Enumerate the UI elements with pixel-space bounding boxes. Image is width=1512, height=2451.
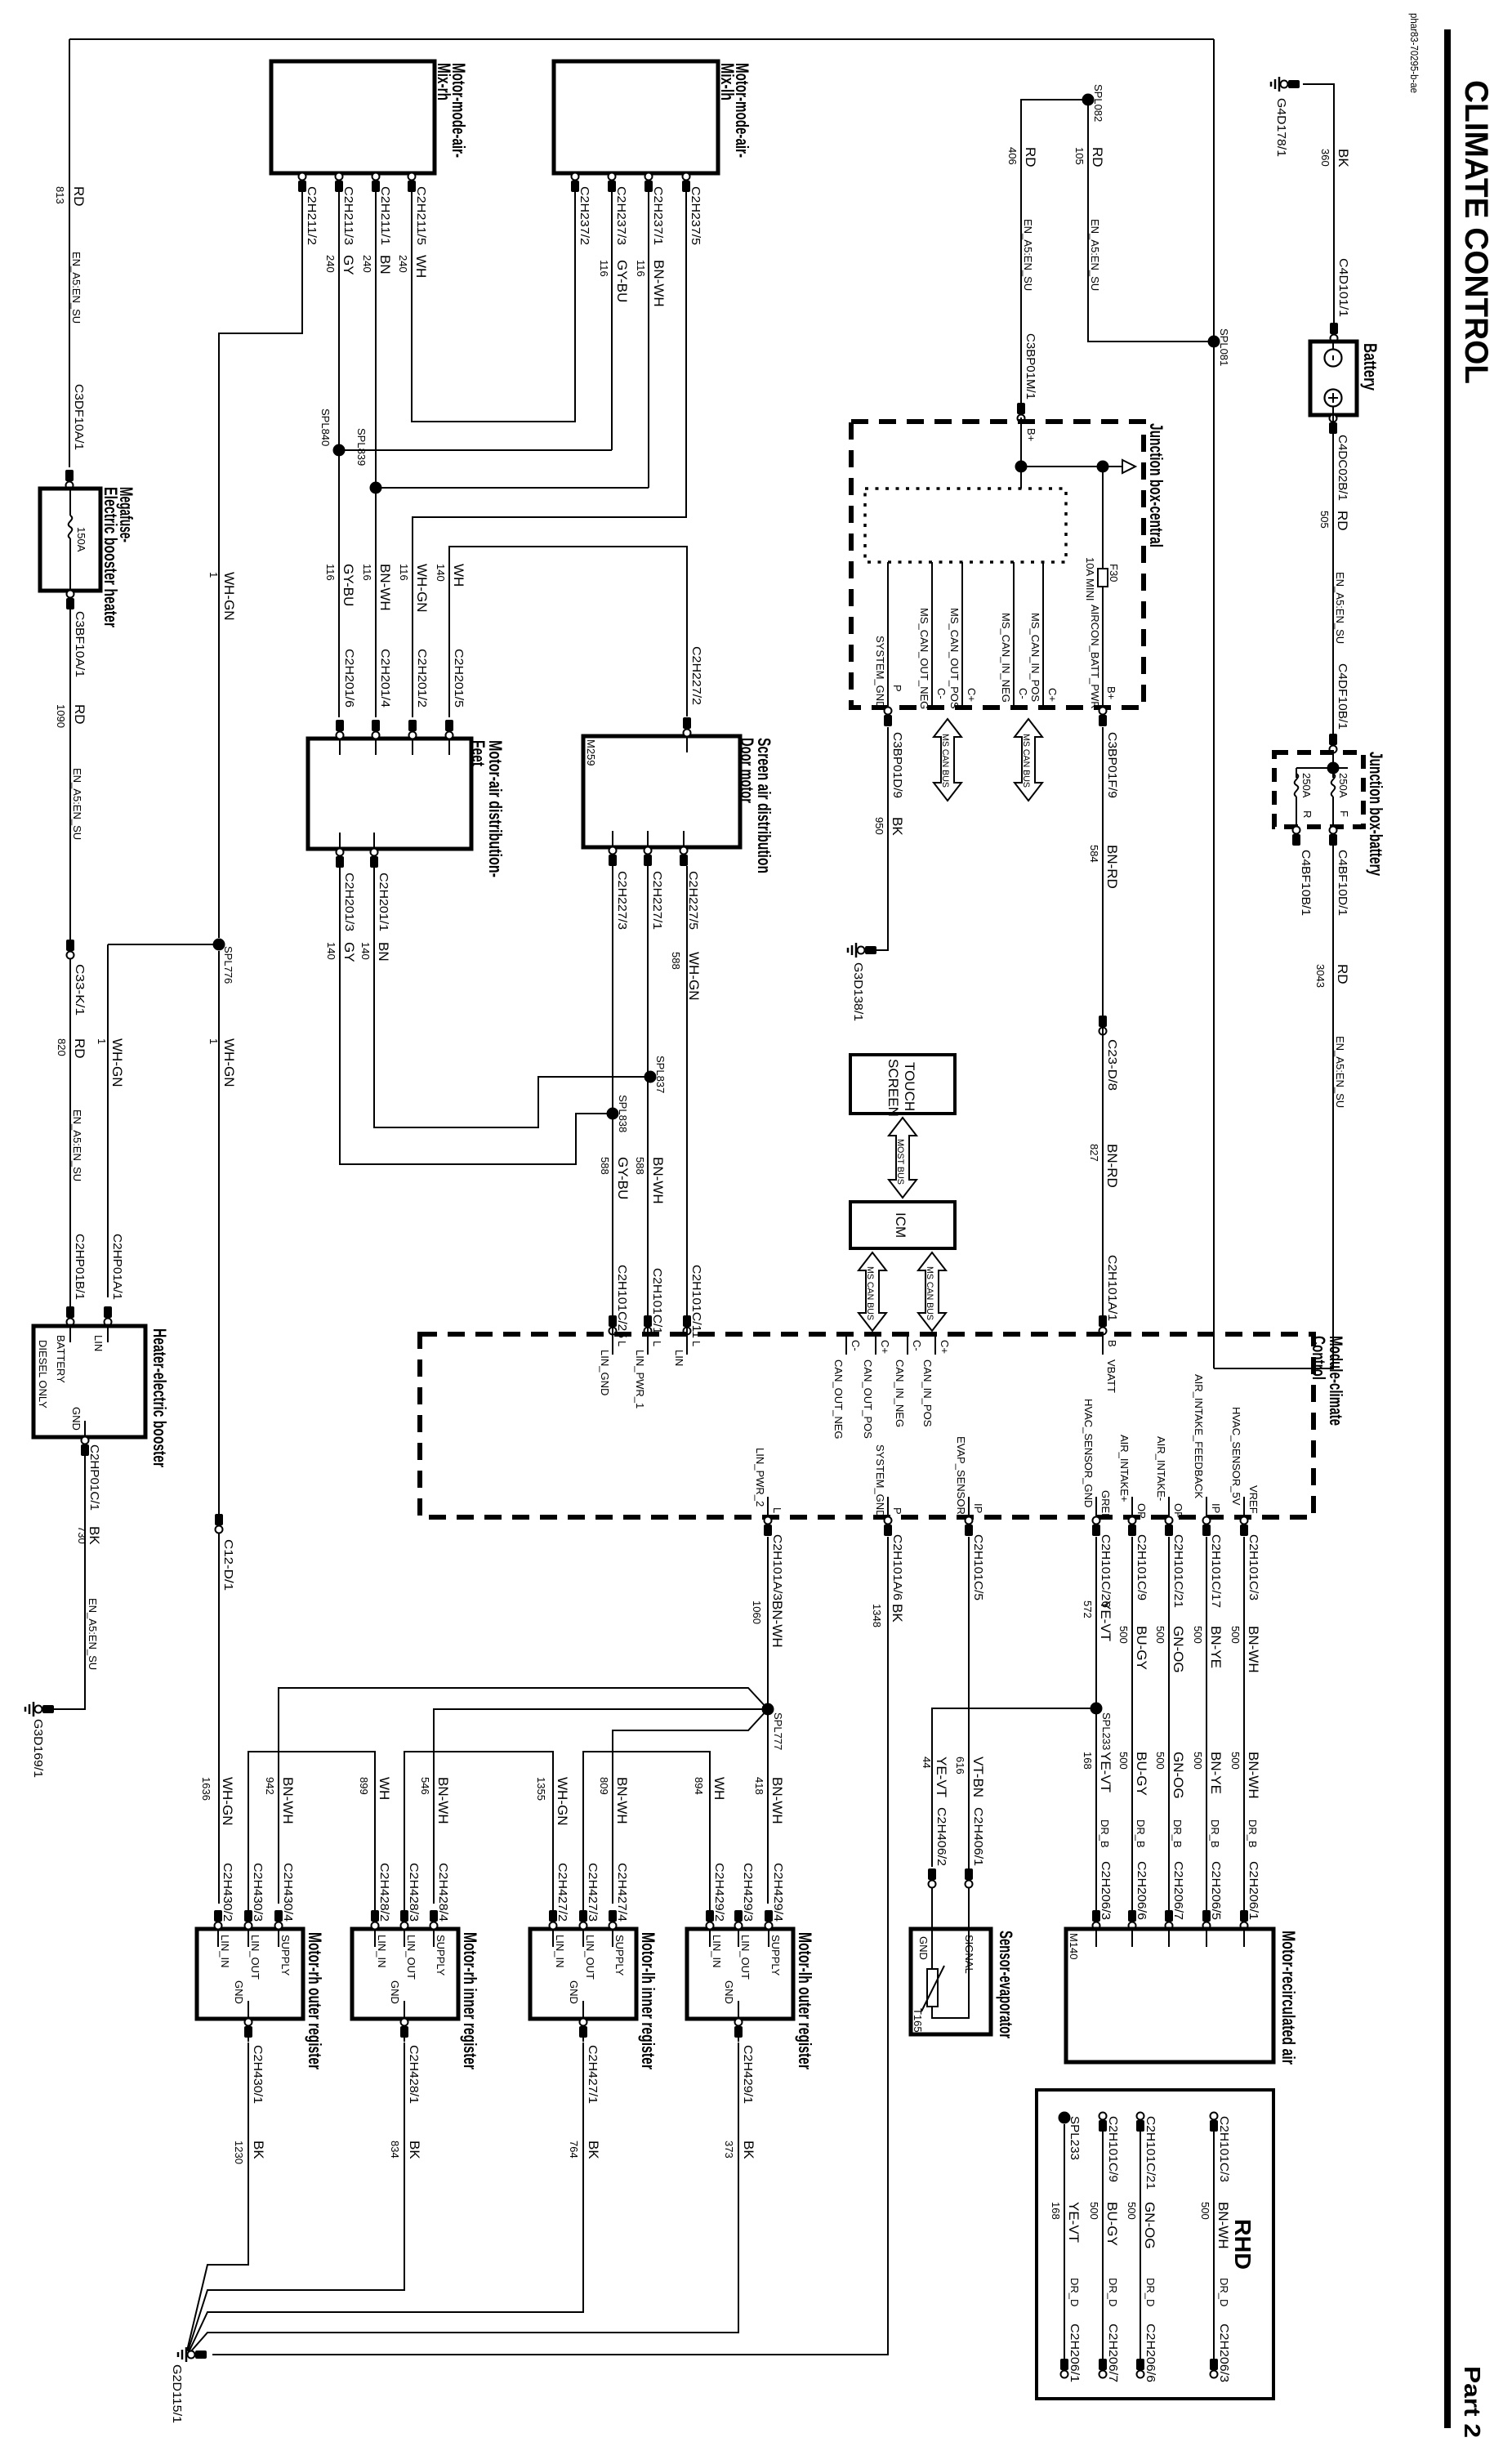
wire C2H237/5 to WH-GN 116 drop	[413, 190, 686, 717]
pin C2H227/5 bottom	[683, 831, 685, 866]
Motor-recirculated air box	[1066, 1929, 1273, 2062]
svg-text:Motor-rh outer register: Motor-rh outer register	[305, 1932, 325, 2069]
svg-text:WH-GN: WH-GN	[221, 572, 237, 620]
svg-text:C2H101C/21: C2H101C/21	[1144, 2116, 1157, 2190]
pin C2H201/2	[408, 720, 417, 731]
wire battery bus inside	[1332, 752, 1334, 768]
pin LIN_OUT C2H428/3	[404, 1914, 405, 1947]
svg-text:M140: M140	[1068, 1933, 1080, 1960]
svg-text:CLIMATE CONTROL: CLIMATE CONTROL	[1458, 80, 1494, 384]
svg-text:LIN_PWR_1: LIN_PWR_1	[634, 1350, 646, 1409]
svg-text:P: P	[891, 1507, 903, 1515]
svg-text:C+: C+	[879, 1340, 891, 1354]
svg-text:DR_B: DR_B	[1209, 1819, 1221, 1848]
svg-text:C3BF10A/1: C3BF10A/1	[73, 611, 87, 677]
svg-text:500: 500	[1154, 1752, 1166, 1770]
pin C2H227/3 bottom	[612, 831, 613, 866]
svg-text:DIESEL ONLY: DIESEL ONLY	[37, 1340, 49, 1409]
pin LIN_PWR_1	[647, 1334, 649, 1355]
RHD box	[1037, 2090, 1273, 2399]
svg-text:C2H206/1: C2H206/1	[1247, 1861, 1260, 1920]
ground G3D138/1	[856, 949, 864, 951]
svg-text:Motor-lh outer register: Motor-lh outer register	[795, 1932, 815, 2069]
connector C2H101A/1	[1099, 1315, 1107, 1327]
svg-text:C3BP01D/9: C3BP01D/9	[890, 732, 904, 798]
svg-text:M259: M259	[585, 739, 597, 766]
Motor-lh inner register box	[530, 1929, 636, 2019]
pin CAN_IN_POS	[934, 1334, 936, 1355]
svg-text:500: 500	[1192, 1626, 1204, 1644]
svg-text:SUPPLY: SUPPLY	[279, 1935, 292, 1976]
pin LIN_IN C2H430/2	[217, 1914, 219, 1947]
pin GND C2H429/1	[738, 2001, 739, 2019]
svg-text:RD: RD	[1090, 147, 1105, 167]
svg-text:BN-YE: BN-YE	[1208, 1752, 1224, 1794]
svg-text:500: 500	[1199, 2202, 1211, 2220]
svg-text:C2H428/3: C2H428/3	[407, 1863, 421, 1922]
svg-text:YE-VT: YE-VT	[934, 1757, 949, 1797]
label LIN pin	[107, 1326, 109, 1342]
svg-text:Heater-electric booster: Heater-electric booster	[149, 1328, 170, 1467]
svg-text:EN_A5:EN_SU: EN_A5:EN_SU	[71, 768, 83, 840]
svg-text:Sensor-evaporator: Sensor-evaporator	[996, 1931, 1016, 2038]
MS CAN BUS arrow 3	[859, 1252, 886, 1331]
svg-text:GND: GND	[568, 1980, 580, 2004]
svg-text:588: 588	[634, 1157, 646, 1175]
svg-text:C2HP01C/1: C2HP01C/1	[87, 1444, 101, 1511]
splice SPL777	[762, 1703, 774, 1716]
wire SPL082 down to SPL081 level	[1088, 100, 1214, 342]
pin C2H201/6	[336, 720, 344, 731]
svg-text:BN-WH: BN-WH	[280, 1777, 296, 1824]
connector C2HP01A/1	[104, 1306, 112, 1318]
pin CAN_IN_NEG	[907, 1334, 908, 1355]
svg-text:764: 764	[568, 2141, 580, 2159]
pin LIN_IN C2H429/2	[709, 1914, 711, 1947]
svg-text:C2H211/1: C2H211/1	[378, 186, 392, 245]
svg-text:DR_D: DR_D	[1218, 2278, 1230, 2306]
pin SUPPLY C2H427/4	[612, 1914, 613, 1947]
svg-text:Motor-rh inner register: Motor-rh inner register	[460, 1932, 480, 2069]
svg-text:F30: F30	[1108, 564, 1120, 582]
pin AIR_INTAKE-	[1168, 1497, 1170, 1517]
connector C4BF10D/1	[1329, 834, 1337, 846]
svg-text:C2H101C/25: C2H101C/25	[615, 1265, 629, 1338]
svg-text:YE-VT: YE-VT	[1098, 1752, 1113, 1792]
svg-text:950: 950	[873, 817, 885, 835]
svg-text:RD: RD	[1335, 511, 1350, 531]
svg-text:F: F	[1338, 810, 1350, 817]
splice SPL776 branch horizontal	[108, 944, 219, 945]
wire LIN chain rh outer to rh inner	[248, 1752, 375, 1911]
svg-text:C2H206/1: C2H206/1	[1068, 2324, 1082, 2382]
svg-text:ICM: ICM	[893, 1212, 908, 1238]
connector C2H101C/1	[644, 1315, 652, 1327]
svg-text:RD: RD	[1023, 147, 1038, 167]
svg-text:168: 168	[1050, 2202, 1062, 2220]
connector C2H101C/25	[609, 1315, 617, 1327]
ground G4D178/1	[1279, 83, 1287, 85]
svg-text:CAN_OUT_NEG: CAN_OUT_NEG	[832, 1359, 845, 1440]
svg-text:C2H201/3: C2H201/3	[342, 873, 356, 931]
svg-text:SUPPLY: SUPPLY	[769, 1935, 782, 1976]
svg-text:B+: B+	[1025, 428, 1037, 441]
svg-text:C2H201/4: C2H201/4	[378, 649, 392, 708]
svg-text:WH: WH	[413, 255, 429, 278]
svg-text:HVAC_SENSOR_GND: HVAC_SENSOR_GND	[1082, 1399, 1095, 1507]
pin GND C2H427/1	[582, 2001, 584, 2019]
svg-text:GY-BU: GY-BU	[614, 260, 630, 302]
svg-text:500: 500	[1117, 1752, 1130, 1770]
svg-text:MS_CAN_IN_NEG: MS_CAN_IN_NEG	[1000, 613, 1012, 703]
svg-text:730: 730	[76, 1526, 88, 1544]
wire RD 1090	[69, 605, 71, 1316]
svg-text:Motor-lh inner register: Motor-lh inner register	[638, 1932, 658, 2069]
svg-text:C2H430/4: C2H430/4	[281, 1863, 295, 1922]
svg-text:BN-WH: BN-WH	[1246, 1752, 1261, 1799]
svg-text:C33-K/1: C33-K/1	[73, 964, 87, 1016]
svg-text:C2H227/1: C2H227/1	[650, 871, 664, 930]
svg-text:240: 240	[324, 255, 337, 273]
svg-text:C2H201/2: C2H201/2	[415, 649, 429, 708]
connector C2HP01C/1	[81, 1444, 89, 1456]
node junction dot	[1327, 762, 1340, 775]
pin C2H211/2	[301, 173, 303, 200]
pin EVAP_SENSOR	[968, 1497, 970, 1517]
svg-text:Part 2: Part 2	[1460, 2366, 1485, 2438]
svg-text:C2H237/1: C2H237/1	[651, 186, 665, 245]
svg-text:B: B	[1106, 1340, 1118, 1347]
connector C2H101C/11	[683, 1315, 691, 1327]
svg-text:GND: GND	[723, 1980, 735, 2004]
svg-text:R: R	[1301, 810, 1314, 818]
svg-text:SPL839: SPL839	[355, 428, 368, 466]
svg-text:BN: BN	[377, 255, 393, 275]
svg-text:250A: 250A	[1300, 773, 1313, 798]
svg-text:EN_A5:EN_SU: EN_A5:EN_SU	[87, 1598, 99, 1670]
svg-text:BK: BK	[586, 2141, 601, 2159]
connector C2H406/2	[928, 1868, 936, 1880]
svg-text:OP: OP	[1172, 1503, 1184, 1519]
Screen air distribution Door motor box	[583, 736, 740, 847]
svg-text:GND: GND	[389, 1980, 401, 2004]
svg-text:MOST BUS: MOST BUS	[895, 1139, 905, 1185]
wire BK 950 to ground G3D138/1	[864, 727, 888, 950]
connector C3BP01M/1	[1017, 403, 1025, 414]
Megafuse-Electric booster heater box	[40, 489, 100, 591]
pin LIN_OUT C2H429/3	[738, 1914, 739, 1947]
pin SYSTEM_GND (module)	[887, 1497, 889, 1517]
connector C2H406/1	[965, 1868, 973, 1880]
svg-text:C2H429/3: C2H429/3	[741, 1863, 755, 1922]
wire from SPL082 to C3BP01M/1	[1021, 100, 1088, 422]
svg-text:C2H237/5: C2H237/5	[689, 186, 702, 245]
svg-text:GREF: GREF	[1099, 1490, 1112, 1520]
svg-text:EN_A5:EN_SU: EN_A5:EN_SU	[1022, 219, 1034, 291]
pin CAN_OUT_NEG	[845, 1334, 847, 1355]
wire BN-RD from C3BP01F/9 to module VBATT	[1102, 727, 1104, 1017]
wire SPL777 branch to rh outer SUPPLY	[279, 1688, 768, 1904]
svg-text:G3D169/1: G3D169/1	[31, 1719, 45, 1778]
svg-text:C2H428/1: C2H428/1	[407, 2045, 421, 2104]
wire BN-WH with splice SPL839	[375, 190, 377, 717]
fuse 150A	[69, 489, 71, 516]
svg-text:BU-GY: BU-GY	[1104, 2202, 1120, 2246]
svg-text:827: 827	[1088, 1144, 1100, 1162]
svg-text:C4DF10B/1: C4DF10B/1	[1336, 663, 1349, 730]
RHD wire YE-VT SPL233 to C2H206/1	[1064, 2124, 1065, 2361]
svg-text:240: 240	[397, 255, 409, 273]
svg-text:C2H101C/9: C2H101C/9	[1106, 2116, 1120, 2182]
wire GND lh outer to ground	[190, 2042, 738, 2353]
pin C2H211/5	[411, 173, 413, 200]
svg-text:116: 116	[324, 564, 337, 581]
Junction box-battery dashed box	[1274, 752, 1363, 827]
svg-text:Mix-rh: Mix-rh	[434, 63, 454, 100]
svg-text:CAN_OUT_POS: CAN_OUT_POS	[862, 1359, 874, 1439]
svg-text:500: 500	[1117, 1626, 1130, 1644]
ground G2D115/1	[186, 2354, 194, 2355]
svg-text:RD: RD	[72, 1038, 87, 1059]
svg-text:116: 116	[398, 564, 410, 581]
svg-text:EN_A5:EN_SU: EN_A5:EN_SU	[1334, 572, 1346, 644]
svg-text:360: 360	[1319, 149, 1331, 167]
svg-text:BN-WH: BN-WH	[769, 1601, 785, 1648]
svg-text:C2H211/3: C2H211/3	[341, 186, 355, 245]
wire GN-OG 500	[1168, 1537, 1170, 1912]
wire BN-RD 827	[1102, 1017, 1104, 1334]
RHD wire BU-GY C2H101C/9 to C2H206/7	[1102, 2124, 1104, 2361]
splice SPL082	[1082, 94, 1095, 106]
inner dotted box	[865, 489, 1066, 562]
svg-text:1355: 1355	[535, 1777, 547, 1801]
svg-text:C2H430/3: C2H430/3	[251, 1863, 265, 1922]
svg-text:1636: 1636	[200, 1777, 212, 1801]
svg-text:C2H201/6: C2H201/6	[342, 649, 356, 708]
node fuse tap dot	[1097, 461, 1109, 473]
svg-text:C2H206/6: C2H206/6	[1144, 2324, 1157, 2382]
svg-text:834: 834	[389, 2141, 401, 2159]
svg-text:MS CAN BUS: MS CAN BUS	[1021, 734, 1031, 788]
svg-text:C2H428/4: C2H428/4	[436, 1863, 450, 1922]
svg-text:SUPPLY: SUPPLY	[435, 1935, 447, 1976]
pin CAN_OUT_POS	[875, 1334, 876, 1355]
pin LIN_OUT C2H430/3	[248, 1914, 249, 1947]
svg-text:SPL837: SPL837	[654, 1056, 667, 1093]
svg-text:LIN_IN: LIN_IN	[219, 1935, 231, 1967]
connector C2H101A/6	[884, 1525, 892, 1536]
svg-text:BN-WH: BN-WH	[651, 260, 667, 307]
svg-text:LIN_OUT: LIN_OUT	[405, 1935, 417, 1980]
svg-text:YE-VT: YE-VT	[1098, 1601, 1113, 1641]
svg-text:L: L	[690, 1341, 702, 1346]
svg-text:899: 899	[358, 1777, 370, 1795]
svg-text:C4D101/1: C4D101/1	[1336, 258, 1350, 317]
svg-text:140: 140	[359, 942, 372, 960]
wire LIN chain lh inner to lh outer	[583, 1752, 710, 1911]
connector C4D101/1	[1330, 323, 1338, 334]
wire BK 730 to ground	[47, 1455, 85, 1709]
svg-text:820: 820	[56, 1038, 68, 1056]
svg-text:809: 809	[598, 1777, 610, 1795]
svg-text:Junction box-central: Junction box-central	[1146, 423, 1166, 547]
svg-text:BN-RD: BN-RD	[1104, 845, 1120, 889]
svg-text:SPL081: SPL081	[1218, 328, 1230, 366]
svg-text:BATTERY: BATTERY	[55, 1335, 67, 1383]
svg-text:942: 942	[264, 1777, 276, 1795]
wire BN-WH 500	[1243, 1537, 1245, 1912]
connector C4DF10B/1	[1329, 734, 1337, 745]
Heater-electric booster box	[33, 1326, 145, 1437]
svg-text:SYSTEM_GND: SYSTEM_GND	[874, 636, 886, 709]
svg-text:C2H427/4: C2H427/4	[615, 1863, 629, 1922]
svg-text:DR_B: DR_B	[1247, 1819, 1259, 1848]
svg-text:GND: GND	[917, 1936, 930, 1960]
svg-text:C-: C-	[911, 1340, 923, 1351]
svg-text:MS CAN BUS: MS CAN BUS	[940, 734, 950, 788]
Module-climate Control dashed box	[420, 1334, 1314, 1517]
svg-text:EVAP_SENSOR: EVAP_SENSOR	[955, 1436, 967, 1515]
wire LIN chain rh inner to lh inner	[404, 1752, 553, 1911]
svg-text:C3BP01F/9: C3BP01F/9	[1105, 732, 1119, 798]
svg-text:105: 105	[1073, 147, 1086, 165]
svg-text:150A: 150A	[75, 527, 87, 552]
svg-text:C2H237/2: C2H237/2	[578, 186, 591, 245]
svg-text:250A: 250A	[1337, 773, 1349, 798]
svg-text:EN_A5:EN_SU: EN_A5:EN_SU	[70, 252, 83, 324]
wire sensor SIGNAL drop	[968, 1887, 970, 1929]
svg-text:BK: BK	[1336, 149, 1351, 167]
wire RD 3043 loop	[1214, 843, 1333, 1368]
svg-text:BN-WH: BN-WH	[1246, 1626, 1261, 1673]
svg-text:406: 406	[1006, 147, 1019, 165]
svg-text:Door motor: Door motor	[737, 738, 757, 803]
svg-text:YE-VT: YE-VT	[1066, 2202, 1082, 2243]
wire Screen C2H227/2 riser to WH 140 drop	[449, 547, 687, 717]
svg-text:SPL233: SPL233	[1068, 2116, 1082, 2160]
svg-text:SPL082: SPL082	[1092, 84, 1104, 122]
svg-text:588: 588	[670, 952, 682, 970]
MS CAN BUS arrow 4	[918, 1252, 946, 1331]
svg-text:TOUCH: TOUCH	[902, 1062, 917, 1111]
RHD wire GN-OG C2H101C/21 to C2H206/6	[1140, 2124, 1141, 2361]
wire SPL777 down to lh outer SUPPLY	[767, 1709, 769, 1904]
pin LIN_OUT C2H427/3	[582, 1914, 584, 1947]
wire SPL777 branch to lh inner SUPPLY	[613, 1709, 768, 1904]
svg-text:BK: BK	[890, 1604, 905, 1623]
svg-text:SPL776: SPL776	[222, 946, 234, 984]
svg-text:C2H429/4: C2H429/4	[771, 1863, 785, 1922]
svg-text:500: 500	[1154, 1626, 1166, 1644]
svg-text:P: P	[891, 685, 903, 692]
svg-text:VBATT: VBATT	[1105, 1359, 1117, 1393]
pin LIN_GND	[612, 1334, 613, 1355]
svg-text:EN_A5:EN_SU: EN_A5:EN_SU	[71, 1109, 83, 1181]
svg-text:MS_CAN_IN_POS: MS_CAN_IN_POS	[1029, 613, 1041, 702]
svg-text:SYSTEM_GND: SYSTEM_GND	[874, 1444, 886, 1518]
svg-text:572: 572	[1082, 1601, 1094, 1618]
svg-text:1: 1	[96, 1038, 108, 1044]
wire long RD vertical right	[1213, 39, 1215, 1368]
connector C4BF10B/1	[1292, 834, 1300, 846]
svg-text:C2H101C/1: C2H101C/1	[650, 1268, 664, 1334]
pin GND C2H430/1	[248, 2001, 249, 2019]
svg-text:116: 116	[598, 260, 610, 277]
wire SPL777 branch to rh inner SUPPLY	[434, 1709, 768, 1904]
svg-text:Control: Control	[1309, 1336, 1329, 1380]
MS CAN BUS arrow 1	[934, 719, 961, 801]
splice SPL837	[644, 1071, 657, 1083]
svg-text:C2HP01A/1: C2HP01A/1	[110, 1234, 124, 1300]
svg-text:168: 168	[1082, 1752, 1094, 1770]
svg-text:LIN_OUT: LIN_OUT	[739, 1935, 752, 1980]
svg-text:C2H206/5: C2H206/5	[1209, 1861, 1223, 1920]
svg-text:L: L	[771, 1507, 783, 1513]
svg-text:584: 584	[1088, 845, 1100, 863]
wire WH-GN to heater LIN	[107, 944, 109, 1297]
recirc pin stubs	[1095, 1929, 1097, 1947]
svg-text:894: 894	[693, 1777, 705, 1795]
svg-text:IP: IP	[1210, 1503, 1222, 1513]
connector C2H101C/21	[1165, 1525, 1173, 1536]
svg-text:C4BF10D/1: C4BF10D/1	[1336, 850, 1349, 916]
connector C2H101C/5	[965, 1525, 973, 1536]
svg-text:C2H101C/5: C2H101C/5	[971, 1534, 985, 1601]
Motor-rh inner register box	[352, 1929, 458, 2019]
pin C2H227/2 top	[683, 717, 691, 729]
svg-text:C2H429/2: C2H429/2	[712, 1863, 726, 1922]
wire stubs into module top LIN	[612, 1311, 613, 1334]
pin stub MS_CAN_OUT_POS	[961, 562, 963, 708]
pin SUPPLY C2H430/4	[278, 1914, 279, 1947]
wire BN-WH 588 vertical	[647, 866, 649, 1311]
svg-text:140: 140	[325, 942, 337, 960]
svg-text:DR_D: DR_D	[1068, 2278, 1081, 2306]
svg-text:AIR_INTAKE_FEEDBACK: AIR_INTAKE_FEEDBACK	[1193, 1374, 1205, 1499]
svg-text:Battery: Battery	[1360, 343, 1380, 391]
Motor-mode-air-Mix-lh box	[554, 61, 718, 173]
wire C2H211/2 to WH-GN bus	[219, 190, 302, 938]
svg-text:C2H427/1: C2H427/1	[586, 2045, 600, 2104]
connector C2HP01B/1	[66, 1306, 74, 1318]
connector C12-D/1 inline	[215, 1514, 223, 1525]
svg-text:WH-GN: WH-GN	[686, 952, 702, 1000]
svg-text:44: 44	[921, 1757, 933, 1768]
svg-text:LIN_GND: LIN_GND	[599, 1350, 611, 1395]
svg-text:500: 500	[1229, 1626, 1242, 1644]
svg-text:Mix-lh: Mix-lh	[717, 63, 738, 100]
wire BU-GY 500	[1131, 1537, 1133, 1912]
svg-text:LIN_OUT: LIN_OUT	[249, 1935, 261, 1980]
Battery box	[1310, 342, 1357, 415]
pin AIR_INTAKE+	[1131, 1497, 1133, 1517]
TOUCH SCREEN box	[850, 1055, 955, 1114]
svg-text:1: 1	[207, 572, 220, 578]
wire B+ bus to arrow	[1021, 466, 1122, 467]
svg-text:500: 500	[1088, 2202, 1100, 2220]
connector C33-K/1 inline	[66, 940, 74, 951]
svg-text:C2H101C/17: C2H101C/17	[1209, 1534, 1223, 1608]
pin C2H201/3 bottom	[339, 833, 341, 868]
svg-text:GY: GY	[341, 255, 356, 275]
svg-text:BN-WH: BN-WH	[1215, 2202, 1231, 2249]
svg-text:C2H101A/1: C2H101A/1	[1105, 1255, 1119, 1321]
svg-text:HVAC_SENSOR_5V: HVAC_SENSOR_5V	[1230, 1407, 1242, 1506]
svg-text:RD: RD	[71, 186, 87, 207]
svg-text:WH-GN: WH-GN	[109, 1038, 125, 1087]
svg-text:MS CAN BUS: MS CAN BUS	[865, 1266, 875, 1320]
svg-text:BN-RD: BN-RD	[1104, 1144, 1120, 1188]
